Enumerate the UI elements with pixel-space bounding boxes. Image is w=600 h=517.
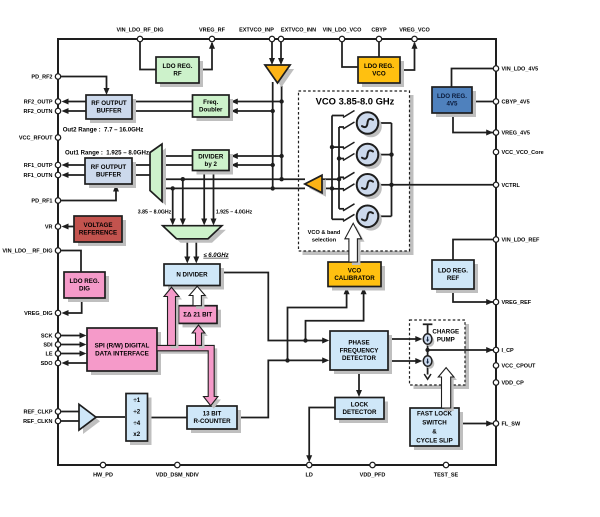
svg-text:÷2: ÷2 <box>133 409 140 416</box>
svg-text:CALIBRATOR: CALIBRATOR <box>334 275 375 282</box>
svg-text:REF_CLKP: REF_CLKP <box>23 410 52 416</box>
svg-text:LDO REG.: LDO REG. <box>163 63 193 70</box>
svg-text:SPI (R/W) DIGITAL: SPI (R/W) DIGITAL <box>95 343 150 350</box>
svg-text:LE: LE <box>45 352 52 358</box>
svg-text:BUFFER: BUFFER <box>96 172 122 179</box>
svg-text:FREQUENCY: FREQUENCY <box>340 347 380 354</box>
svg-text:CBYP: CBYP <box>371 28 387 34</box>
svg-text:VCC_RFOUT: VCC_RFOUT <box>19 136 53 142</box>
svg-text:REFERENCE: REFERENCE <box>79 230 117 237</box>
svg-text:FL_SW: FL_SW <box>502 422 521 428</box>
svg-text:≤ 6.0GHz: ≤ 6.0GHz <box>203 253 228 259</box>
svg-text:PUMP: PUMP <box>437 336 455 343</box>
svg-text:BUFFER: BUFFER <box>96 108 122 115</box>
svg-text:PD_RF2: PD_RF2 <box>31 75 52 81</box>
svg-text:VCC_VCO_Core: VCC_VCO_Core <box>502 150 544 156</box>
svg-text:VREG_RF: VREG_RF <box>199 28 226 34</box>
svg-text:VREG_REF: VREG_REF <box>502 300 532 306</box>
svg-text:DIG: DIG <box>79 286 90 293</box>
svg-text:VREG_VCO: VREG_VCO <box>399 28 430 34</box>
svg-text:LDO REG.: LDO REG. <box>70 278 100 285</box>
svg-text:FAST LOCK: FAST LOCK <box>417 410 453 417</box>
svg-text:VIN_LDO_VCO: VIN_LDO_VCO <box>323 28 363 34</box>
svg-text:VCO: VCO <box>348 267 362 274</box>
svg-text:Out2 Range : 7.7 – 16.0GHz: Out2 Range : 7.7 – 16.0GHz <box>63 127 144 134</box>
svg-text:LOCK: LOCK <box>351 401 369 408</box>
svg-text:CHARGE: CHARGE <box>432 329 459 336</box>
svg-text:PD_RF1: PD_RF1 <box>31 199 52 205</box>
svg-text:I_CP: I_CP <box>502 348 515 354</box>
svg-text:VIN_LDO_RF_DIG: VIN_LDO_RF_DIG <box>116 28 163 34</box>
svg-text:HW_PD: HW_PD <box>93 473 113 479</box>
svg-text:EXTVCO_INN: EXTVCO_INN <box>281 28 316 34</box>
svg-text:SDI: SDI <box>43 343 53 349</box>
svg-text:VDD_CP: VDD_CP <box>502 381 525 387</box>
svg-text:DETECTOR: DETECTOR <box>342 355 376 362</box>
svg-text:VREG_DIG: VREG_DIG <box>24 311 52 317</box>
svg-text:RF1_OUTP: RF1_OUTP <box>24 163 53 169</box>
svg-text:DATA INTERFACE: DATA INTERFACE <box>95 350 149 357</box>
svg-text:3.85 – 8.0GHz: 3.85 – 8.0GHz <box>138 210 172 216</box>
svg-text:VCO 3.85-8.0 GHz: VCO 3.85-8.0 GHz <box>316 96 395 107</box>
svg-text:LDO REG.: LDO REG. <box>364 63 394 70</box>
svg-text:VDD_DSM_NDIV: VDD_DSM_NDIV <box>156 473 199 479</box>
svg-text:VR: VR <box>45 225 53 231</box>
svg-text:Out1 Range : 1.925 – 8.0GHz: Out1 Range : 1.925 – 8.0GHz <box>65 150 149 157</box>
svg-text:x2: x2 <box>133 431 140 438</box>
svg-text:RF1_OUTN: RF1_OUTN <box>23 173 52 179</box>
svg-text:LDO REG.: LDO REG. <box>437 93 467 100</box>
svg-text:Freq.: Freq. <box>203 99 218 106</box>
svg-text:RF2_OUTP: RF2_OUTP <box>24 100 53 106</box>
svg-text:1.925 – 4.0GHz: 1.925 – 4.0GHz <box>216 210 253 216</box>
svg-text:VOLTAGE: VOLTAGE <box>84 222 113 229</box>
svg-text:4V5: 4V5 <box>446 101 458 108</box>
svg-text:VIN_LDO_REF: VIN_LDO_REF <box>502 238 541 244</box>
svg-text:VCTRL: VCTRL <box>502 183 521 189</box>
svg-text:VIN_LDO_4V5: VIN_LDO_4V5 <box>502 67 539 73</box>
svg-text:N DIVIDER: N DIVIDER <box>176 272 208 279</box>
svg-text:RF2_OUTN: RF2_OUTN <box>23 109 52 115</box>
svg-text:VREG_4V5: VREG_4V5 <box>502 131 530 137</box>
svg-text:VDD_PFD: VDD_PFD <box>360 473 386 479</box>
svg-text:RF: RF <box>173 71 181 78</box>
svg-text:CYCLE SLIP: CYCLE SLIP <box>416 437 452 444</box>
svg-text:VCO & band: VCO & band <box>308 230 341 236</box>
svg-text:÷1: ÷1 <box>133 397 140 404</box>
svg-text:VCO: VCO <box>372 71 386 78</box>
svg-text:SWITCH: SWITCH <box>422 419 447 426</box>
svg-text:DIVIDER: DIVIDER <box>198 153 224 160</box>
svg-text:R-COUNTER: R-COUNTER <box>193 418 231 425</box>
svg-text:REF: REF <box>447 275 460 282</box>
svg-text:RF OUTPUT: RF OUTPUT <box>91 164 127 171</box>
svg-text:÷4: ÷4 <box>133 420 140 427</box>
svg-text:SDO: SDO <box>41 361 54 367</box>
svg-text:by 2: by 2 <box>205 161 218 168</box>
svg-text:LDO REG.: LDO REG. <box>438 268 468 275</box>
svg-text:Doubler: Doubler <box>199 107 223 114</box>
svg-text:VCC_CPOUT: VCC_CPOUT <box>502 364 537 370</box>
svg-text:DETECTOR: DETECTOR <box>343 409 377 416</box>
svg-text:REF_CLKN: REF_CLKN <box>23 419 52 425</box>
svg-text:EXTVCO_INP: EXTVCO_INP <box>239 28 274 34</box>
svg-text:selection: selection <box>312 238 337 244</box>
svg-text:13 BIT: 13 BIT <box>203 411 222 418</box>
svg-text:ΣΔ 21 BIT: ΣΔ 21 BIT <box>183 311 212 318</box>
svg-text:&: & <box>432 428 437 435</box>
svg-text:PHASE: PHASE <box>348 340 369 347</box>
svg-text:CBYP_4V5: CBYP_4V5 <box>502 100 530 106</box>
svg-text:TEST_SE: TEST_SE <box>434 473 459 479</box>
svg-text:VIN_LDO__RF_DIG: VIN_LDO__RF_DIG <box>2 249 52 255</box>
svg-text:SCK: SCK <box>41 334 53 340</box>
svg-text:RF OUTPUT: RF OUTPUT <box>91 100 127 107</box>
svg-text:LD: LD <box>306 473 313 479</box>
